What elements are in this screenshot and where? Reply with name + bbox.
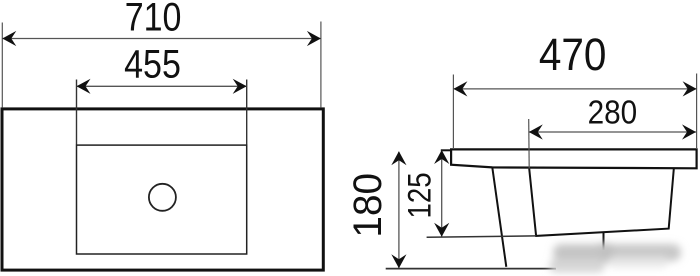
svg-text:455: 455 <box>124 41 181 86</box>
svg-text:470: 470 <box>539 30 607 81</box>
svg-text:125: 125 <box>402 172 438 218</box>
svg-text:710: 710 <box>125 0 182 39</box>
svg-text:280: 280 <box>588 94 638 131</box>
svg-text:180: 180 <box>346 173 389 238</box>
